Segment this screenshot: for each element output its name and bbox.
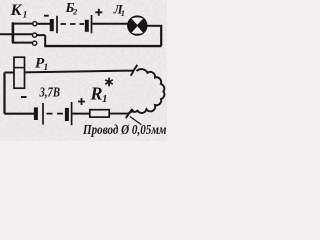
battery B2 cell1 positive plate: [56, 16, 58, 33]
wire: right side down: [160, 25, 162, 46]
device P1 box: [14, 57, 25, 88]
wire: contact2 to return line: [37, 35, 45, 46]
battery 3.7V cell1 positive plate: [42, 103, 44, 125]
wire: bottom of lower loop: [5, 113, 35, 115]
switch contact circle 3 (bottom, open): [33, 41, 37, 45]
svg-text:1: 1: [23, 10, 28, 20]
wire: battery to lamp: [92, 23, 128, 25]
svg-text:К: К: [10, 2, 23, 19]
label plus (battery 3.7V): [78, 98, 85, 105]
battery B2 cell2 negative plate: [85, 20, 89, 32]
label L1 (lamp): [113, 2, 125, 19]
switch contact circle 1 (top): [33, 22, 37, 26]
label R1 with asterisk: [90, 84, 108, 106]
lamp L1: [127, 15, 147, 35]
wire: slash2 to R1 box: [109, 110, 134, 113]
device P1 divider: [14, 67, 25, 69]
wire: P1 to slash (top of lower loop): [25, 71, 134, 73]
switch contact circle 2 (middle): [33, 33, 37, 37]
label wire spec: [82, 123, 167, 138]
label minus (battery 3.7V): [21, 96, 27, 98]
svg-text:Провод Ø 0,05мм: Провод Ø 0,05мм: [82, 123, 167, 138]
wire: dashed link between cells: [61, 23, 85, 25]
wire: top-circuit return line: [44, 45, 161, 47]
label K1 (switch): [10, 2, 28, 20]
wire: switch bottom stub: [12, 42, 32, 44]
wire: left side of lower loop: [3, 73, 5, 114]
switch common bar: [12, 22, 15, 42]
junction slash 1: [131, 65, 138, 76]
battery B2 cell1 negative plate: [50, 19, 54, 31]
resistor R1 box: [90, 110, 109, 117]
svg-text:1: 1: [121, 8, 125, 18]
svg-text:2: 2: [72, 6, 78, 16]
wire: battery to R1 box: [72, 113, 89, 115]
wire: dashed link between 3.7V cells: [47, 113, 64, 115]
wire: left input to switch: [0, 33, 32, 35]
label 3.7V: [39, 86, 60, 101]
asterisk of R1: [105, 78, 113, 87]
battery 3.7V cell2 positive plate: [71, 102, 73, 125]
resistance R1 thin-wire coil (scalloped): [132, 69, 164, 113]
battery B2 cell2 positive plate: [91, 15, 93, 33]
junction slash 2: [126, 109, 132, 118]
label plus (battery B2): [95, 9, 102, 16]
wire: switch common stub top: [12, 23, 33, 25]
svg-text:R: R: [90, 84, 103, 104]
svg-text:3,7В: 3,7В: [39, 86, 60, 101]
wire: left lead into P1: [5, 72, 15, 74]
battery 3.7V cell1 negative plate: [34, 107, 38, 120]
label B2: [65, 1, 79, 16]
battery 3.7V cell2 negative plate: [65, 108, 69, 121]
label P1 (device): [35, 55, 48, 73]
wire: lamp to right corner: [147, 25, 160, 27]
svg-text:1: 1: [102, 93, 108, 105]
wire: contact1 to battery B2: [37, 23, 50, 25]
leader line to wire label: [130, 117, 142, 125]
label minus (battery B2): [44, 15, 49, 17]
